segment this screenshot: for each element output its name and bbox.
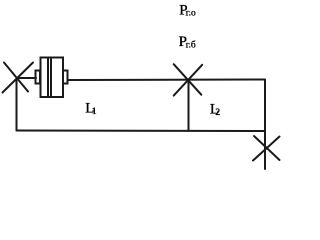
wire: middle drop (L1/L2 divider) [188,80,190,131]
pump/regulator unit body [41,58,64,98]
pump/regulator unit left flange [36,71,41,84]
wire: bottom horizontal line [17,130,266,133]
node X bottom right (consumer) [253,136,280,161]
node X middle (point Pг.6) [174,64,203,95]
wire: main horizontal line (pump outlet to right corner) [68,79,266,82]
wire: left X to pump inlet [17,77,37,79]
wire: left riser [16,78,18,131]
pump inner divider line 1 [47,58,49,98]
pump inner divider line 2 [50,58,52,98]
pump/regulator unit right flange [63,71,68,84]
wire: right riser [264,80,266,170]
svg-text:L2: L2 [210,102,221,118]
node X left (gas source) [3,63,34,93]
